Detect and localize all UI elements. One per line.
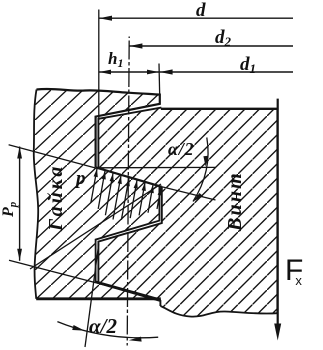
alpha/2 top arc xyxy=(193,138,208,202)
svg-text:h1: h1 xyxy=(108,49,123,70)
force Fx line xyxy=(277,99,279,329)
alpha/2 top: flank extension xyxy=(162,187,216,200)
alpha/2 bottom: left leg xyxy=(85,244,99,348)
svg-text:Гайка: Гайка xyxy=(45,164,67,232)
construction line A xyxy=(30,184,161,269)
svg-text:Винт: Винт xyxy=(224,171,246,232)
svg-text:Pp: Pp xyxy=(0,201,19,218)
svg-text:Fx: Fx xyxy=(285,254,303,288)
arc arrowhead at flank xyxy=(193,193,203,202)
dimension d2 xyxy=(129,45,293,47)
svg-text:d: d xyxy=(196,0,206,21)
arc arrowhead at horizontal line xyxy=(203,156,208,167)
alpha/2 bottom arc xyxy=(57,322,158,338)
extension line d xyxy=(98,10,100,121)
svg-text:p: p xyxy=(74,168,86,189)
nut left edge xyxy=(34,90,38,299)
screw right edge xyxy=(276,109,278,313)
pressure arrows p xyxy=(91,169,162,220)
dimension d1 xyxy=(160,71,293,73)
svg-text:d2: d2 xyxy=(215,27,232,49)
extension line d1 xyxy=(158,64,161,97)
alpha/2 top: horizontal ref line xyxy=(97,166,216,168)
nut thread: tip face 2, lower flank, root face 2, bottom flank xyxy=(96,186,160,299)
dimension d xyxy=(99,17,293,19)
svg-text:α/2: α/2 xyxy=(168,139,194,159)
dimension h1 xyxy=(99,71,160,73)
dimension Pp xyxy=(19,147,21,261)
nut body hatched region xyxy=(34,89,162,299)
svg-text:d1: d1 xyxy=(240,54,256,76)
bottom arc right arrowhead xyxy=(129,337,142,342)
bottom arc left arrowhead xyxy=(72,325,84,331)
Pp extension bottom (flank 2 extended) xyxy=(9,260,161,299)
nut bottom edge xyxy=(36,297,161,300)
d2 centerline (dash-dot) xyxy=(127,37,129,346)
svg-text:α/2: α/2 xyxy=(89,314,117,338)
screw outline: upper flank t1, crest t1 xyxy=(98,108,161,169)
nut outline xyxy=(37,89,160,167)
screw body hatched region xyxy=(98,108,277,317)
screw root face, flank t2, crest t2, lower flank t2, bottom root xyxy=(98,187,161,306)
Pp extension top (flank extended) xyxy=(9,145,97,168)
loaded flank (contact, shared) xyxy=(96,167,162,186)
screw bottom wavy break xyxy=(160,306,277,317)
screw top edge xyxy=(161,108,278,110)
